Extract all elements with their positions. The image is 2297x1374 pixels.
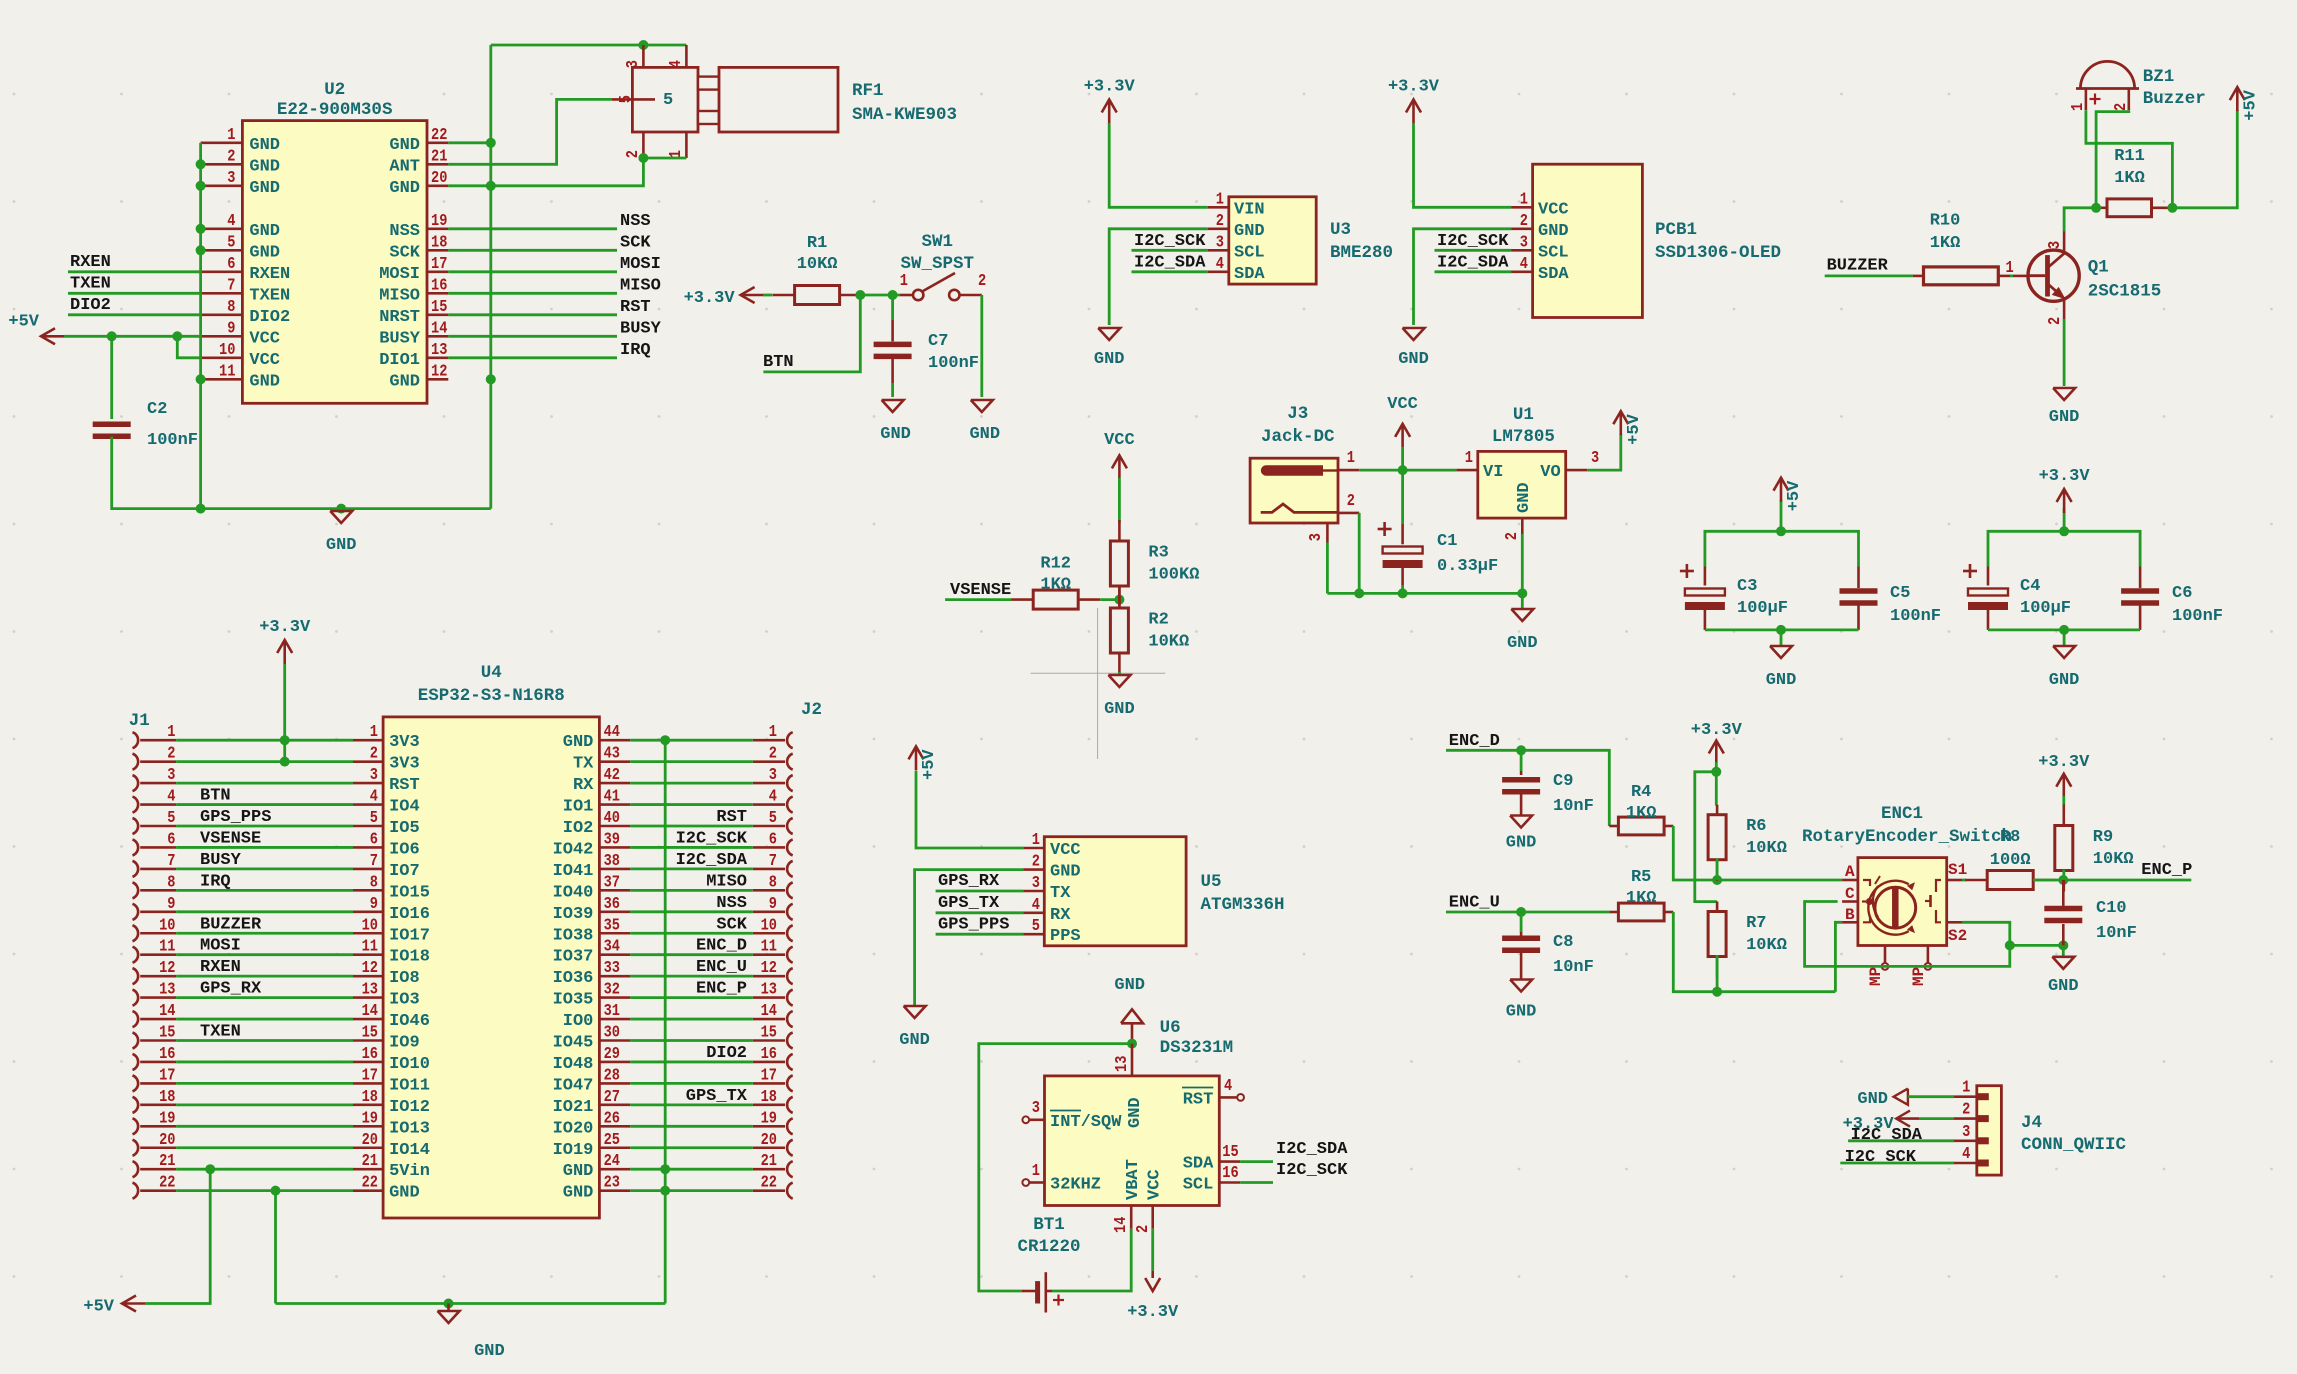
U4 pin 36 (IO39) right stub: [553, 894, 631, 924]
wire J2 pin 7 to U4: [630, 868, 753, 871]
wire U6 VCC down: [1151, 1229, 1154, 1271]
wire VCC node down to C1: [1401, 470, 1404, 524]
ground below U1: [1507, 609, 1538, 653]
wire J2 pin 18 to U4: [630, 1103, 753, 1106]
svg-text:IO20: IO20: [553, 1119, 594, 1138]
junction rail J3 pin2: [1354, 588, 1364, 598]
svg-text:VCC: VCC: [249, 329, 280, 348]
U2 pin 15 (NRST) right stub: [379, 297, 448, 327]
wire C7 bottom to GND: [891, 383, 894, 397]
svg-text:R8: R8: [2000, 828, 2020, 847]
U3 pins: [1208, 189, 1266, 283]
svg-text:I2C_SDA: I2C_SDA: [1276, 1140, 1348, 1159]
wire J2-side GND bus vertical: [664, 740, 667, 1303]
wire U2 right GND bus vertical: [489, 45, 492, 509]
svg-text:IO3: IO3: [389, 991, 420, 1010]
svg-text:100nF: 100nF: [147, 431, 198, 450]
svg-text:IO39: IO39: [553, 905, 594, 924]
wire J1 pin 1 to U4: [176, 739, 353, 742]
J2 pin 11: [753, 937, 793, 963]
wire U3 GND: [1109, 229, 1208, 325]
svg-text:+3.3V: +3.3V: [684, 289, 736, 308]
wire J2 pin 12 to U4: [630, 975, 753, 978]
ground below Q1: [2049, 388, 2080, 427]
wire J1 pin 6 to U4: [176, 846, 353, 849]
junction RF1 pin3: [638, 40, 648, 50]
svg-text:GND: GND: [899, 1031, 930, 1050]
J2 pin 14: [753, 1001, 793, 1027]
U4 pin 11 (IO18) left stub: [353, 937, 430, 967]
wire J1 pin 14 to U4: [176, 1018, 353, 1021]
junction +5V rail: [1776, 526, 1786, 536]
U2 pin 20 (GND) right stub: [389, 168, 448, 198]
svg-text:GPS_TX: GPS_TX: [686, 1087, 748, 1106]
svg-text:13: 13: [1112, 1056, 1131, 1072]
svg-text:9: 9: [370, 894, 378, 913]
svg-text:35: 35: [604, 915, 620, 934]
U6 pin 16 SCL: [1183, 1163, 1241, 1195]
svg-text:+5V: +5V: [1625, 413, 1644, 444]
U4 pin 6 (IO6) left stub: [353, 829, 420, 859]
svg-text:IO15: IO15: [389, 883, 430, 902]
junction GND row21 (pin24): [660, 1164, 670, 1174]
svg-text:22: 22: [159, 1173, 175, 1192]
wire J1 pin 5 to U4: [176, 825, 353, 828]
J1 pin 22: [133, 1173, 177, 1199]
svg-text:GND: GND: [1114, 976, 1145, 995]
svg-text:5: 5: [227, 232, 235, 251]
wire J2 pin 20 to U4: [630, 1146, 753, 1149]
resistor R12 1KΩ: [1011, 555, 1100, 610]
svg-text:30: 30: [604, 1023, 620, 1042]
svg-text:GND: GND: [1506, 834, 1537, 853]
wire C2 bottom to GND rail: [112, 437, 201, 509]
U4 pin 28 (IO47) right stub: [553, 1065, 631, 1095]
J1 pin 17: [133, 1065, 177, 1091]
U4 pin 34 (IO37) right stub: [553, 937, 631, 967]
svg-text:13: 13: [761, 980, 777, 999]
junction R11 left: [2091, 203, 2101, 213]
svg-text:VO: VO: [1540, 463, 1560, 482]
svg-text:1: 1: [1216, 189, 1224, 208]
svg-text:C: C: [1845, 885, 1855, 903]
capacitor C6 top lead: [2139, 567, 2142, 589]
J1 pin 9: [133, 894, 177, 920]
wire C1 bottom to rail: [1401, 585, 1404, 593]
connector RF1 SMA body: [612, 45, 838, 158]
U4 pin 33 (IO36) right stub: [553, 958, 631, 988]
svg-text:IO6: IO6: [389, 840, 420, 859]
J4 pin pads: [1977, 1093, 1989, 1166]
net label BTN: [763, 353, 794, 372]
svg-text:13: 13: [159, 980, 175, 999]
svg-text:PPS: PPS: [1050, 927, 1081, 946]
wire J4 pin4: [1840, 1162, 1977, 1165]
wire R4 right down to A: [1673, 826, 1842, 880]
wire J1 pin 9 to U4: [176, 910, 353, 913]
svg-text:12: 12: [362, 958, 378, 977]
svg-text:39: 39: [604, 829, 620, 848]
svg-text:33: 33: [604, 958, 620, 977]
wire J1 pin 4 to U4: [176, 803, 353, 806]
U6 pin 1 32KHZ: [1022, 1161, 1101, 1195]
svg-text:R2: R2: [1148, 611, 1168, 630]
svg-text:IO46: IO46: [389, 1012, 430, 1031]
svg-text:J1: J1: [129, 711, 150, 731]
svg-text:SMA-KWE903: SMA-KWE903: [852, 105, 957, 125]
svg-text:4: 4: [1224, 1076, 1232, 1095]
svg-text:I2C_SDA: I2C_SDA: [676, 851, 748, 870]
svg-text:C5: C5: [1890, 584, 1910, 603]
capacitor C1 bottom lead: [1401, 568, 1404, 586]
svg-text:ESP32-S3-N16R8: ESP32-S3-N16R8: [418, 686, 565, 706]
svg-text:TXEN: TXEN: [200, 1023, 241, 1042]
power +3.3V arrow (J4 pin2): [1843, 1111, 1919, 1134]
wire node to C10 bottom: [2010, 944, 2064, 947]
IC U3 BME280 body: [1229, 197, 1316, 284]
junction U2 pin11: [196, 374, 206, 384]
U4 pin 22 (GND) left stub: [353, 1173, 420, 1203]
svg-text:J3: J3: [1287, 404, 1308, 424]
junction C7 node: [888, 290, 898, 300]
svg-text:ENC_U: ENC_U: [1449, 894, 1500, 913]
wire SW1 pin2 down to GND: [980, 295, 983, 397]
ENC1 pin B: [1842, 906, 1858, 924]
svg-text:9: 9: [227, 318, 235, 337]
power flag GND (J4 pin1): [1857, 1089, 1908, 1109]
U4 pin 40 (IO2) right stub: [563, 808, 631, 838]
U4 pin 35 (IO38) right stub: [553, 915, 631, 945]
svg-text:IO9: IO9: [389, 1034, 420, 1053]
wire ENC_P: [2063, 879, 2191, 882]
wire J2 pin 6 to U4: [630, 846, 753, 849]
wire C3/C5 top rail: [1705, 531, 1859, 566]
U6 pin 3 INT/SQW: [1022, 1098, 1122, 1132]
svg-text:+3.3V: +3.3V: [1127, 1303, 1179, 1322]
rotary encoder ENC1 body: [1858, 858, 1947, 946]
svg-text:15: 15: [1222, 1142, 1238, 1161]
wire +3.3V to U3 VIN: [1109, 123, 1208, 207]
J2 pin 17: [753, 1065, 793, 1091]
wire rail to GND (C3): [1780, 630, 1783, 646]
svg-text:1: 1: [167, 722, 175, 741]
junction B rail / R7: [1712, 987, 1722, 997]
svg-text:3: 3: [769, 765, 777, 784]
wire RF1 pin1 link: [643, 157, 686, 160]
svg-text:E22-900M30S: E22-900M30S: [277, 100, 393, 120]
svg-text:RX: RX: [1050, 906, 1071, 925]
svg-text:SDA: SDA: [1538, 265, 1569, 284]
svg-text:Buzzer: Buzzer: [2143, 89, 2206, 109]
U4 pin 4 (IO4) left stub: [353, 787, 420, 817]
svg-text:4: 4: [1962, 1144, 1970, 1163]
svg-text:3V3: 3V3: [389, 755, 420, 774]
svg-text:RST: RST: [620, 298, 651, 317]
svg-text:S1: S1: [1948, 861, 1967, 879]
svg-text:34: 34: [604, 937, 620, 956]
svg-text:DIO2: DIO2: [706, 1044, 747, 1063]
ground below C3/C5: [1766, 646, 1797, 690]
net label DIO2: [68, 296, 201, 315]
svg-text:R5: R5: [1631, 868, 1651, 887]
svg-text:17: 17: [761, 1065, 777, 1084]
U4 pin 7 (IO7) left stub: [353, 851, 420, 881]
svg-text:32KHZ: 32KHZ: [1050, 1176, 1101, 1195]
svg-text:IO18: IO18: [389, 948, 430, 967]
svg-text:RST: RST: [716, 808, 747, 827]
svg-text:1: 1: [2068, 103, 2087, 111]
ground below SW1: [969, 400, 1000, 444]
power +3.3V arrow (R6): [1709, 741, 1724, 763]
svg-text:16: 16: [761, 1044, 777, 1063]
svg-text:BZ1: BZ1: [2143, 67, 2175, 87]
svg-text:+5V: +5V: [1785, 480, 1804, 511]
svg-text:C10: C10: [2096, 899, 2127, 918]
svg-text:1: 1: [1347, 448, 1355, 467]
svg-text:IO37: IO37: [553, 948, 594, 967]
wire J1 pin 2 to U4: [176, 760, 353, 763]
U2 pin 18 (SCK) right stub: [389, 232, 448, 262]
svg-text:24: 24: [604, 1151, 620, 1170]
svg-text:+3.3V: +3.3V: [2039, 467, 2091, 486]
J4 pin numbers: [1962, 1078, 1970, 1163]
U4 pin 1 (3V3) left stub: [353, 722, 420, 752]
svg-text:SCL: SCL: [1183, 1176, 1214, 1195]
U6 pin 4 RST: [1182, 1076, 1244, 1109]
svg-text:SCK: SCK: [389, 243, 420, 262]
J1 pin 10: [133, 915, 177, 941]
svg-text:C2: C2: [147, 400, 167, 419]
junction U6 GND node: [1127, 1039, 1137, 1049]
U4 pin 5 (IO5) left stub: [353, 808, 420, 838]
svg-text:GND: GND: [249, 179, 280, 198]
wire R12 to divider node: [1100, 598, 1119, 601]
resistor R6 10KΩ: [1708, 805, 1787, 881]
svg-text:SCL: SCL: [1538, 243, 1569, 262]
J1 pin 18: [133, 1087, 177, 1113]
svg-text:GPS_RX: GPS_RX: [200, 980, 262, 999]
wire R10 to Q1 base: [2010, 274, 2013, 277]
svg-text:4: 4: [370, 787, 378, 806]
svg-text:VSENSE: VSENSE: [950, 581, 1011, 600]
svg-text:+3.3V: +3.3V: [1084, 78, 1136, 97]
svg-text:VCC: VCC: [1538, 200, 1569, 219]
svg-text:GND: GND: [1126, 1097, 1145, 1128]
svg-text:GND: GND: [474, 1342, 505, 1361]
U4 pin 44 (GND) right stub: [563, 722, 631, 752]
wire J1 pin 10 to U4: [176, 932, 353, 935]
svg-text:ENC_D: ENC_D: [1449, 732, 1500, 751]
net label RXEN: [68, 253, 201, 272]
wire R6 bottom to A row: [1716, 858, 1719, 880]
J1 pin 11: [133, 937, 177, 963]
wire J2 pin 11 to U4: [630, 953, 753, 956]
svg-text:BUZZER: BUZZER: [1827, 257, 1889, 276]
svg-text:5: 5: [663, 91, 673, 110]
U2 pin 12 (GND) right stub: [389, 361, 448, 391]
U4 pin 16 (IO10) left stub: [353, 1044, 430, 1074]
svg-text:NSS: NSS: [716, 894, 747, 913]
svg-text:+3.3V: +3.3V: [2038, 753, 2090, 772]
svg-text:BUSY: BUSY: [200, 851, 242, 870]
svg-text:GND: GND: [1507, 634, 1538, 653]
wire +3.3V down to 3V3 pins: [283, 664, 286, 762]
svg-text:GND: GND: [1104, 700, 1135, 719]
J1 pin 7: [133, 851, 177, 877]
wire J2 pin 15 to U4: [630, 1039, 753, 1042]
wire R6 top: [1715, 772, 1718, 806]
junction ENC_U / C8: [1516, 907, 1526, 917]
net label I2C_SCK (PCB1): [1435, 232, 1512, 251]
U4 pin 17 (IO11) left stub: [353, 1065, 430, 1095]
capacitor C2: [93, 400, 198, 450]
buzzer BZ1: [2068, 61, 2139, 111]
svg-text:BUSY: BUSY: [379, 329, 421, 348]
svg-text:18: 18: [362, 1087, 378, 1106]
wire rail to GND (C4): [2063, 630, 2066, 646]
U4 pin 25 (IO19) right stub: [553, 1130, 631, 1160]
U4 pin 20 (IO14) left stub: [353, 1130, 430, 1160]
svg-text:+5V: +5V: [920, 749, 939, 780]
U4 pin 2 (3V3) left stub: [353, 744, 420, 774]
svg-text:17: 17: [159, 1065, 175, 1084]
svg-text:NSS: NSS: [389, 222, 420, 241]
capacitor C9 bottom lead: [1520, 794, 1523, 815]
svg-text:IO14: IO14: [389, 1141, 430, 1160]
svg-text:1: 1: [1032, 1161, 1040, 1180]
IC U5 ATGM336H body: [1044, 837, 1186, 946]
ground below C8: [1506, 980, 1537, 1022]
ground below R2: [1104, 675, 1135, 719]
svg-text:ENC_P: ENC_P: [2141, 861, 2192, 880]
connector J3 Jack-DC body: [1250, 458, 1338, 523]
U4 pin 37 (IO40) right stub: [553, 872, 631, 902]
capacitor C1 0.33µF: [1378, 522, 1499, 576]
wire/net label RST: [448, 298, 650, 317]
svg-text:VIN: VIN: [1234, 200, 1265, 219]
wire ENC_D: [1446, 750, 1609, 826]
U4 pin 26 (IO20) right stub: [553, 1108, 631, 1138]
svg-text:4: 4: [1520, 254, 1528, 273]
power VCC arrow (J3): [1395, 424, 1410, 447]
ground below U5: [899, 1006, 930, 1050]
svg-text:21: 21: [362, 1151, 378, 1170]
svg-text:1: 1: [769, 722, 777, 741]
svg-text:4: 4: [1216, 254, 1224, 273]
svg-text:MISO: MISO: [620, 276, 661, 295]
J3 pin 3 stub: [1306, 523, 1327, 543]
capacitor C6 bottom lead: [2139, 603, 2142, 630]
svg-text:IO2: IO2: [563, 819, 594, 838]
wire J1 pin 21 to U4: [176, 1168, 353, 1171]
Q1 base lead: [2013, 275, 2029, 278]
wire U2 pin22 GND to RF1 pin3 (top): [448, 141, 491, 144]
svg-text:3: 3: [1591, 448, 1599, 467]
svg-text:44: 44: [604, 722, 620, 741]
svg-text:VCC: VCC: [1050, 841, 1081, 860]
J2 pin 15: [753, 1023, 793, 1049]
svg-text:+3.3V: +3.3V: [259, 618, 311, 637]
U2 pin 14 (BUSY) right stub: [379, 318, 448, 348]
svg-text:Jack-DC: Jack-DC: [1261, 427, 1335, 447]
svg-text:11: 11: [362, 937, 378, 956]
svg-text:31: 31: [604, 1001, 620, 1020]
svg-text:1KΩ: 1KΩ: [1040, 576, 1071, 595]
svg-text:11: 11: [159, 937, 175, 956]
J2 pin 19: [753, 1108, 793, 1134]
U4 pin 10 (IO17) left stub: [353, 915, 430, 945]
svg-text:3: 3: [1962, 1122, 1970, 1141]
resistor R8 100Ω: [1965, 828, 2055, 890]
power +3.3V (PCB1): [1388, 78, 1440, 124]
svg-text:15: 15: [431, 297, 447, 316]
svg-text:GND: GND: [389, 372, 420, 391]
wire C4/C6 bottom rail: [1988, 629, 2140, 632]
svg-text:LM7805: LM7805: [1492, 427, 1555, 447]
transistor Q1 2SC1815: [2006, 231, 2080, 325]
junction RF1 pin2: [638, 153, 648, 163]
svg-text:IO21: IO21: [553, 1098, 594, 1117]
svg-text:14: 14: [159, 1001, 175, 1020]
power +5V (U2 VCC): [8, 312, 64, 344]
svg-text:R11: R11: [2114, 147, 2145, 166]
wire VCC branch to U2 pin10: [177, 336, 200, 358]
svg-text:19: 19: [431, 211, 447, 230]
svg-text:2: 2: [2111, 103, 2130, 111]
svg-text:17: 17: [431, 254, 447, 273]
resistor R3 100KΩ: [1110, 520, 1199, 607]
svg-text:22: 22: [761, 1173, 777, 1192]
resistor R4 1KΩ: [1609, 783, 1673, 835]
svg-text:41: 41: [604, 787, 620, 806]
svg-text:14: 14: [1111, 1217, 1130, 1233]
svg-text:32: 32: [604, 980, 620, 999]
svg-text:15: 15: [159, 1023, 175, 1042]
wire R8 to ENC_P node: [2033, 879, 2063, 882]
svg-text:IO13: IO13: [389, 1119, 430, 1138]
svg-text:1: 1: [370, 722, 378, 741]
svg-text:RST: RST: [389, 776, 420, 795]
svg-text:2: 2: [1962, 1100, 1970, 1119]
net label GPS_TX (U5): [936, 894, 1024, 913]
wire J2 pin 10 to U4: [630, 932, 753, 935]
svg-text:100KΩ: 100KΩ: [1148, 566, 1199, 585]
wire VSENSE to R12: [945, 598, 1011, 601]
svg-text:VSENSE: VSENSE: [200, 829, 261, 848]
svg-text:18: 18: [159, 1087, 175, 1106]
junction +5V / VCC branch: [172, 331, 182, 341]
connector J4 body: [1977, 1086, 2002, 1175]
svg-text:J2: J2: [801, 700, 822, 720]
wire J3 pin2 down: [1358, 513, 1361, 594]
svg-text:I2C_SDA: I2C_SDA: [1437, 254, 1509, 273]
power +3.3V (U3): [1084, 78, 1136, 124]
svg-text:26: 26: [604, 1108, 620, 1127]
svg-text:GND: GND: [563, 1162, 594, 1181]
wire U5 GND: [915, 870, 1024, 1006]
U2 pin 16 (MISO) right stub: [379, 275, 448, 305]
svg-text:6: 6: [769, 829, 777, 848]
resistor R1 10KΩ: [773, 234, 862, 305]
svg-text:INT/SQW: INT/SQW: [1050, 1113, 1122, 1132]
svg-text:MISO: MISO: [379, 286, 420, 305]
U2 pin 1 (GND) left stub: [201, 125, 280, 155]
wire U2 left GND bus vertical: [199, 143, 202, 509]
J2 pin 4: [753, 787, 793, 813]
wire R9 bottom to node: [2062, 870, 2065, 881]
J1 pin 8: [133, 872, 177, 898]
J1 pin 20: [133, 1130, 177, 1156]
